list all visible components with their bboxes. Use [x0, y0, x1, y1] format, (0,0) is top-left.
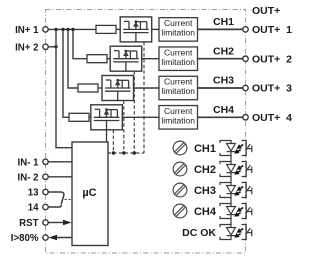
svg-text:CH1: CH1 — [194, 143, 216, 155]
wire IN-2 to uC — [48, 176, 72, 178]
wire Q1 to current limitation 1 — [152, 28, 159, 30]
junction dots on gate bus — [112, 151, 136, 154]
svg-text:µC: µC — [82, 187, 96, 199]
wire LED chain 4-5 — [230, 219, 232, 225]
wire feeder channel 3 — [68, 29, 78, 88]
terminal OUT+ 1 — [243, 27, 248, 32]
transistor Q2 (MOSFET) — [110, 46, 142, 71]
svg-text:CH3: CH3 — [194, 185, 216, 197]
dashed actuation link to uC — [65, 199, 73, 201]
svg-text:DC OK: DC OK — [182, 227, 216, 239]
dashed gate bus to uC — [108, 152, 145, 154]
svg-text:OUT+ 3: OUT+ 3 — [252, 83, 292, 95]
terminal 13 — [43, 189, 48, 194]
transistor Q1 (MOSFET) — [120, 17, 152, 42]
wire feeder channel 2 — [73, 29, 87, 58]
wire LED chain 2-3 — [230, 177, 232, 183]
dash-dot module border — [46, 10, 246, 254]
wire R1 to Q1 — [116, 28, 120, 30]
svg-text:IN+ 1: IN+ 1 — [15, 25, 39, 36]
terminal 14 — [43, 204, 48, 209]
potentiometer screw CH4 — [173, 204, 187, 218]
terminal OUT+ 3 — [243, 85, 248, 90]
LED DC OK — [220, 225, 252, 240]
wire R4 to Q4 — [89, 116, 91, 118]
current limitation box 3 — [159, 76, 198, 100]
svg-text:limitation: limitation — [161, 57, 195, 67]
wire Q4 gate solid to uC top — [106, 130, 108, 142]
LED CH3 — [220, 183, 252, 198]
transistor Q3 (MOSFET) — [102, 76, 134, 101]
LED CH1 — [220, 141, 252, 156]
wire CH1 output — [198, 28, 244, 30]
wire contact 14 — [48, 205, 61, 207]
potentiometer screw CH2 — [173, 162, 187, 176]
svg-text:IN+ 2: IN+ 2 — [15, 42, 38, 53]
wire I>80% from uC with arrow — [55, 237, 72, 239]
LED CH4 — [220, 204, 252, 219]
wire LED chain 3-4 — [230, 198, 232, 204]
wire RST to uC with arrow — [48, 222, 64, 224]
svg-text:limitation: limitation — [161, 86, 195, 96]
wire Q3 to current limitation 3 — [134, 87, 160, 89]
svg-text:limitation: limitation — [161, 28, 195, 38]
wire IN-1 to uC — [48, 161, 72, 163]
terminal OUT+ 2 — [243, 56, 248, 61]
svg-text:CH2: CH2 — [194, 164, 216, 176]
resistor R1 (shunt ch1) — [96, 25, 116, 33]
potentiometer screw CH3 — [173, 183, 187, 197]
terminal IN- 2 — [43, 174, 48, 179]
terminal I>80% — [43, 235, 48, 240]
terminal IN- 1 — [43, 159, 48, 164]
wire bus tie IN+1/IN+2 down to uC supply — [56, 29, 72, 147]
terminal IN+ 1 — [43, 27, 48, 32]
svg-text:RST: RST — [19, 218, 38, 229]
transistor Q4 (MOSFET) — [91, 105, 123, 130]
svg-text:OUT+ 2: OUT+ 2 — [252, 53, 292, 65]
wire contact 13 — [48, 192, 64, 195]
svg-text:OUT+ 1: OUT+ 1 — [252, 24, 292, 36]
svg-text:IN- 2: IN- 2 — [18, 172, 39, 183]
terminal IN+ 2 — [43, 44, 48, 49]
wire IN+1 bus to resistor R1 — [48, 28, 96, 30]
svg-text:CH4: CH4 — [194, 206, 217, 218]
wire CH2 output — [198, 58, 244, 60]
svg-text:OUT+: OUT+ — [252, 5, 280, 17]
svg-text:CH3: CH3 — [213, 75, 234, 87]
wire IN+2 to bus — [48, 46, 56, 48]
wire CH3 output — [198, 87, 244, 89]
wire feeder channel 4 — [63, 29, 69, 117]
wire R2 to Q2 — [107, 58, 110, 60]
gate control dashed line Q1 — [143, 42, 145, 153]
op-amp uC microcontroller box — [72, 142, 108, 246]
LED CH2 — [220, 162, 252, 177]
resistor R2 (shunt ch2) — [87, 55, 107, 63]
current limitation box 1 — [159, 18, 198, 42]
wire Q4 to current limitation 4 — [122, 116, 159, 118]
svg-text:I>80%: I>80% — [11, 233, 39, 244]
svg-text:CH4: CH4 — [213, 104, 234, 116]
wire R3 to Q3 — [98, 87, 102, 89]
svg-text:13: 13 — [28, 188, 39, 199]
svg-text:OUT+ 4: OUT+ 4 — [252, 112, 292, 124]
terminal RST — [43, 220, 48, 225]
svg-text:14: 14 — [28, 203, 39, 214]
gate control dashed line Q2 — [133, 71, 135, 153]
relay contact blade 13-14 — [61, 195, 64, 205]
resistor R3 (shunt ch3) — [78, 84, 98, 92]
svg-text:limitation: limitation — [161, 115, 195, 125]
wire LED chain 1-2 — [230, 156, 232, 162]
gate control dashed line Q4 — [112, 130, 114, 153]
gate control dashed line Q3 — [123, 101, 125, 154]
current limitation box 2 — [159, 47, 198, 70]
svg-text:CH2: CH2 — [213, 45, 234, 57]
wire CH4 output — [198, 116, 244, 118]
wire Q2 to current limitation 2 — [142, 58, 159, 60]
svg-text:CH1: CH1 — [213, 16, 234, 28]
resistor R4 (shunt ch4) — [69, 113, 89, 121]
potentiometer screw CH1 — [173, 141, 187, 155]
svg-text:IN- 1: IN- 1 — [18, 157, 40, 168]
current limitation box 4 — [159, 106, 198, 130]
terminal OUT+ 4 — [243, 115, 248, 120]
junction dots on IN+ bus — [54, 28, 74, 49]
